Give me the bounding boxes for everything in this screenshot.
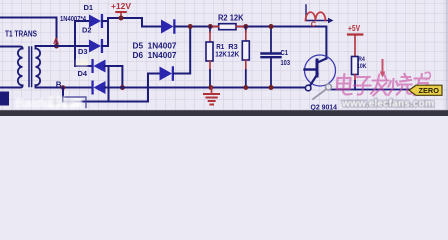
transformer secondary winding xyxy=(36,49,41,86)
resistor R3 top pin xyxy=(245,27,247,32)
resistor R3 xyxy=(242,41,249,60)
svg-text:www.elecfans.com: www.elecfans.com xyxy=(341,97,434,109)
resistor R1 top pin xyxy=(209,27,211,33)
char 友 xyxy=(412,74,432,95)
red annotation arrow xyxy=(380,60,385,78)
diode D1 xyxy=(89,14,103,28)
C1 bottom lead xyxy=(270,58,272,88)
wire riser from bottom run up to D6 anode xyxy=(148,74,161,102)
junction dot D3 branch on rail xyxy=(120,85,125,90)
svg-text:C: C xyxy=(311,19,317,28)
node B junction dot xyxy=(61,85,66,90)
ground rail xyxy=(105,87,307,89)
svg-text:Baidu: Baidu xyxy=(15,96,51,111)
Q2 emitter xyxy=(311,74,318,85)
Q2 base bar xyxy=(316,60,319,76)
R2 right pin xyxy=(236,26,246,28)
svg-text:A: A xyxy=(53,36,59,46)
diode D2 xyxy=(89,39,103,53)
waveform annotation axis xyxy=(306,5,330,21)
+12V junction dot xyxy=(119,16,124,21)
junction dot R2 left / R1 top xyxy=(208,24,213,29)
svg-text:D5 1N4007: D5 1N4007 xyxy=(133,41,177,50)
svg-text:R1: R1 xyxy=(216,42,224,51)
watermark swoosh xyxy=(313,90,326,100)
ground symbol xyxy=(204,88,219,105)
elecfans pink watermark: 电子发烧友 drawn as strokes xyxy=(336,72,432,95)
wire D6 cathode riser to main wire xyxy=(174,27,190,74)
svg-text:12K: 12K xyxy=(215,51,227,58)
svg-text:+12V: +12V xyxy=(111,2,132,11)
svg-text:D1: D1 xyxy=(84,3,94,12)
background grid xyxy=(0,0,448,116)
svg-text:10K: 10K xyxy=(357,63,367,70)
wire D1 anode lead xyxy=(75,20,90,22)
wire top-left to node A xyxy=(0,18,57,47)
svg-text:D4: D4 xyxy=(78,69,88,78)
wire node B down and along bottom xyxy=(63,88,148,102)
junction dot R2 right / R3 top xyxy=(243,24,248,29)
resistor R1 xyxy=(206,42,213,61)
right edge shade xyxy=(446,0,448,116)
svg-text:R3: R3 xyxy=(228,42,238,51)
+5V power symbol xyxy=(348,35,362,57)
R1 bottom wire to rail xyxy=(209,70,211,88)
watermark ghost blob xyxy=(76,59,89,67)
junction dot C1 top xyxy=(269,24,274,29)
capacitor C1 plates xyxy=(262,54,281,58)
transformer primary bottom lead xyxy=(0,86,23,88)
diode D5 xyxy=(161,19,176,34)
char 子 xyxy=(353,77,371,95)
ZERO net tag xyxy=(409,85,442,95)
svg-text:103: 103 xyxy=(281,58,291,67)
resistor R4 xyxy=(352,57,359,75)
R1 bottom pin xyxy=(209,61,211,70)
svg-text:ZERO: ZERO xyxy=(419,88,440,95)
right bus (D1 D2 cathodes) xyxy=(107,18,109,46)
diode D3 (pointing left) xyxy=(91,59,105,73)
svg-text:12K: 12K xyxy=(227,52,239,59)
junction dot R3 rail xyxy=(243,85,248,90)
svg-text:D3: D3 xyxy=(78,47,88,56)
wire secondary bottom node B to D4 cathode xyxy=(36,85,93,87)
svg-text:R2 12K: R2 12K xyxy=(218,13,244,22)
wire D3 anode lead and branches xyxy=(105,66,122,102)
waveform humps xyxy=(306,12,326,20)
bottom dark band xyxy=(0,110,448,116)
watermark logo circle xyxy=(326,84,332,90)
char 烧 xyxy=(388,74,412,95)
transformer primary winding xyxy=(18,49,23,86)
wire D2 cathode to right bus xyxy=(102,45,108,47)
transformer primary top lead xyxy=(0,47,23,49)
+12V power symbol xyxy=(116,12,126,18)
R3 bottom pin xyxy=(245,60,247,70)
left bus D1 anode to D3 cathode xyxy=(75,21,92,66)
junction dot D6 riser xyxy=(188,24,193,29)
registered mark xyxy=(425,72,431,79)
R3 bottom wire to rail xyxy=(245,70,247,88)
+12V wire xyxy=(108,17,142,19)
svg-text:T1 TRANS: T1 TRANS xyxy=(5,29,38,38)
Q2 emitter terminal circle xyxy=(305,85,311,91)
resistor R2 xyxy=(219,24,236,30)
Q2 base pin xyxy=(305,68,318,70)
svg-text:C1: C1 xyxy=(281,48,289,57)
wire +12V corner down to D5 anode xyxy=(142,18,162,27)
diode D4 (pointing left) xyxy=(91,81,105,95)
Q2 collector xyxy=(318,59,327,63)
transformer core xyxy=(29,47,32,87)
svg-text:1N4007*4: 1N4007*4 xyxy=(60,16,86,23)
wire secondary top to node A and on to D2 anode xyxy=(36,46,90,49)
main signal wire D5 cathode to collector corner xyxy=(175,27,326,59)
junction dot R1 rail xyxy=(208,85,213,90)
diode D6 xyxy=(160,66,175,81)
capacitor C1 top lead xyxy=(270,27,272,53)
svg-text:Q2 9014: Q2 9014 xyxy=(311,102,338,111)
svg-text:D6 1N4007: D6 1N4007 xyxy=(133,51,177,60)
output wire emitter to ZERO tag xyxy=(331,89,409,91)
baidu watermark xyxy=(15,96,82,111)
R4 bottom pin xyxy=(354,75,356,82)
char 电 xyxy=(336,74,352,95)
wire D1 cathode to right bus xyxy=(102,20,108,22)
junction dot C1 bottom xyxy=(269,85,274,90)
svg-text:D2: D2 xyxy=(82,26,92,35)
transistor Q2 circle xyxy=(305,55,336,86)
char 发 xyxy=(371,75,389,96)
cropped component block bottom-left xyxy=(0,92,9,106)
R2 left pin xyxy=(211,26,219,28)
node A dot xyxy=(54,44,59,49)
svg-text:+5V: +5V xyxy=(348,24,361,33)
watermark box stroke xyxy=(65,97,86,108)
R4 wire down to output xyxy=(354,81,356,90)
